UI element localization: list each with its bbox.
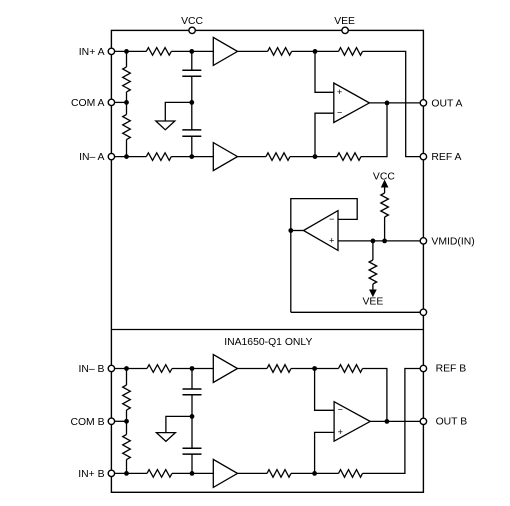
wire R6B right and up to REF B [363,369,424,474]
op-amp U1A [334,83,370,123]
wire IN-B row to R1B [111,368,147,370]
pin IN-A [108,153,114,159]
svg-text:IN– B: IN– B [79,364,105,375]
svg-text:−: − [337,108,342,118]
resistor bus B lower [123,435,131,460]
capacitor C1A plates [182,70,201,76]
junction dots mid section [371,239,376,244]
pin OUT A [420,100,426,106]
mid VEE arrow [372,284,374,290]
wire R6A up to out node [361,103,387,157]
resistor bus B upper [123,385,131,410]
separator line INA1650-Q1 ONLY [111,329,423,331]
svg-text:−: − [329,214,334,224]
buffer A1 [213,37,237,65]
svg-text:VEE: VEE [334,16,355,27]
wire R2A to node [292,50,339,52]
wire -input opamp A [315,113,334,156]
op-amp U2 VMID buffer [304,211,339,251]
resistor R5A post-buffer [266,153,290,161]
wire R5B to node [291,472,339,474]
wire R2B to node [291,368,339,370]
input bus B top segment [126,369,128,386]
pin IN-B [108,365,114,371]
pin COM A [108,99,114,105]
junction dots section B [124,366,129,371]
resistor R5B post-buffer [267,470,291,478]
svg-text:INA1650-Q1 ONLY: INA1650-Q1 ONLY [224,337,312,348]
wire opamp A output to OUT A [369,102,423,104]
wire COM A to bus [111,101,126,103]
svg-text:+: + [338,427,343,437]
wire opamp B output to OUT B [370,420,423,422]
capacitor C2A plates [182,130,201,136]
wire buffer B1 to R2B [238,368,268,370]
wire IN+B row to R4B [111,472,147,474]
pin OUT B [420,418,426,424]
junction dots section A [124,49,129,54]
pin IN+A [108,48,114,54]
wire buffer A1 to R2A [238,50,268,52]
svg-text:OUT A: OUT A [431,98,462,109]
pin VCC [189,27,195,33]
resistor R2B post-buffer [267,365,291,373]
input bus A bottom segment [126,140,128,157]
pin REF B [420,365,426,371]
svg-text:VEE: VEE [363,296,384,307]
resistor R1A input [146,48,171,56]
svg-text:−: − [338,404,343,414]
svg-text:REF B: REF B [436,364,467,375]
wire R1A to buffer A1 [171,50,213,52]
wire U2 output to node [291,230,304,232]
cap chain A mid wire [191,76,193,130]
ground A symbol [156,121,175,130]
pin IN+B [108,470,114,476]
wire VMID bottom to pin [291,311,424,313]
resistor R6B to REF B [339,470,363,478]
svg-text:IN– A: IN– A [79,152,104,163]
input bus A mid segment [126,92,128,115]
resistor bus A lower [123,115,131,140]
wire U2 -input feedback top [291,199,357,313]
input bus A top segment [126,51,128,67]
wire R VCC to VMID row [384,217,386,241]
svg-text:IN+ B: IN+ B [78,469,104,480]
pin REF A [420,153,426,159]
pin VMID(IN) [420,238,426,244]
pin VEE [342,27,348,33]
svg-text:IN+ A: IN+ A [79,47,105,58]
op-amp U1B [334,402,370,442]
mid VCC arrow [384,186,386,193]
ground B symbol [156,433,175,442]
svg-text:VCC: VCC [373,172,395,183]
wire -input opamp B [315,369,335,411]
wire buffer B2 to R5B [238,472,268,474]
wire R5A to node [290,156,337,158]
cap chain B top wire [191,369,193,390]
pin VMID bottom unnamed [420,309,426,315]
ground B wire [166,416,192,432]
svg-text:COM A: COM A [71,98,105,109]
svg-text:COM B: COM B [70,417,104,428]
wire R4B to buffer B2 [172,472,213,474]
mid VEE arrowhead [370,290,376,296]
ground A wire [165,102,192,121]
resistor R3B feedback [339,365,363,373]
wire IN-A row to R4A [111,156,146,158]
wire R4A to buffer A2 [171,156,213,158]
wire VEE branch [372,241,374,260]
VMID row wire [338,240,423,242]
resistor R4B input [147,470,172,478]
wire R3A right and down to REF A [363,51,424,156]
svg-text:OUT B: OUT B [436,417,468,428]
wire R1B to buffer B1 [172,368,213,370]
buffer B1 [213,355,237,383]
resistor R VCC mid [381,193,389,217]
wire +input opamp B [315,432,335,473]
resistor R VEE mid [369,260,377,284]
wire COM B to bus [111,420,126,422]
svg-text:REF A: REF A [431,152,461,163]
resistor bus A upper [123,67,131,92]
resistor R3A to REF A [339,48,363,56]
cap chain B mid wire [191,395,193,449]
buffer A2 [213,143,237,171]
svg-text:VCC: VCC [181,16,203,27]
capacitor C1B plates [183,389,202,395]
cap chain A top wire [191,51,193,70]
cap chain B bottom wire [191,454,193,473]
mid VCC arrowhead [382,181,388,187]
input bus B bottom segment [126,460,128,474]
outer box [111,30,423,492]
resistor R2A post-buffer [268,48,292,56]
wire +input opamp A [315,51,334,92]
resistor R6A feedback [337,153,361,161]
svg-text:+: + [337,87,342,97]
buffer B2 [213,459,237,487]
wire IN+A row to R1A [111,50,146,52]
resistor R1B input [147,365,172,373]
wire R3B down to out node [363,369,387,422]
pin COM B [108,418,114,424]
capacitor C2B plates [183,448,202,454]
wire buffer A2 to R5A [238,156,267,158]
input bus B mid segment [126,410,128,435]
cap chain A bottom wire [191,136,193,156]
svg-text:+: + [329,236,334,246]
svg-text:VMID(IN): VMID(IN) [431,236,474,247]
resistor R4A input [146,153,171,161]
